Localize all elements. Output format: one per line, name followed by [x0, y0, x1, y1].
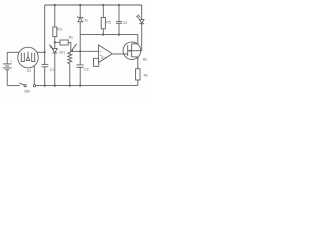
wire top rail	[45, 4, 142, 6]
svg-text:G1: G1	[27, 69, 32, 73]
wire to op-amp inverting input	[72, 50, 99, 52]
rheostat RH1 zigzag	[68, 52, 72, 86]
capacitor C2	[76, 51, 88, 85]
wire microphone right terminal to left vertical	[37, 51, 45, 53]
microphone G1	[18, 47, 39, 73]
battery G	[3, 52, 13, 85]
svg-text:+: +	[100, 50, 102, 54]
svg-text:SW: SW	[24, 90, 30, 94]
node top rail junction at D1	[79, 4, 81, 6]
svg-text:C2: C2	[84, 67, 89, 71]
svg-text:2H1: 2H1	[59, 50, 65, 54]
svg-text:+: +	[10, 60, 12, 64]
resistor R2	[136, 57, 148, 86]
wire battery to microphone left terminal	[7, 51, 19, 53]
wire op-amp lower input U-loop	[94, 58, 99, 66]
wire bottom rail left segment	[7, 85, 20, 87]
node top rail junction at R5	[102, 4, 104, 6]
wire op-amp output to transistor gate	[112, 53, 127, 55]
node top rail junction at R3	[54, 4, 56, 6]
capacitor C1	[42, 64, 55, 72]
capacitor C3	[116, 5, 127, 35]
node bottom rail junction at rheostat branch	[69, 85, 71, 87]
wiper arrow of rheostat	[70, 44, 77, 53]
node mid rail junction at R5	[102, 34, 104, 36]
svg-text:IC1: IC1	[101, 56, 106, 60]
wire mid rail corner down to transistor drain	[137, 35, 139, 44]
svg-text:C1: C1	[50, 68, 55, 72]
node bottom rail junction at diode branch	[54, 85, 56, 87]
svg-text:C3: C3	[123, 21, 127, 25]
node junction at C2 top	[79, 50, 81, 52]
transistor B2 (MOSFET in circle)	[123, 42, 147, 62]
zener diode Z1	[78, 5, 89, 35]
wire bottom rail main segment	[36, 85, 138, 87]
photodiode (label 2H1)	[49, 42, 65, 85]
wire left vertical from top rail to bottom rail	[44, 5, 46, 86]
LED D2	[137, 5, 144, 51]
node top rail junction at C3	[118, 4, 120, 6]
svg-text:R2: R2	[144, 73, 148, 77]
svg-text:Z1: Z1	[84, 18, 88, 22]
node bottom rail junction at C2 branch	[79, 85, 81, 87]
wire microphone bottom to switch contact	[33, 66, 35, 85]
wire zener node down to op-amp input	[79, 35, 81, 52]
node mid rail junction at C3	[118, 34, 120, 36]
svg-text:B2: B2	[143, 57, 147, 61]
resistor R5	[101, 5, 111, 35]
wire mid rail (zener node)	[80, 34, 138, 36]
svg-text:R3: R3	[57, 27, 61, 31]
svg-text:R1: R1	[69, 36, 73, 40]
node junction mic right wire on left vertical	[44, 51, 46, 53]
switch SW	[19, 83, 35, 94]
op-amp IC1	[99, 45, 113, 63]
resistor R3	[53, 5, 62, 42]
node junction left vertical on bottom rail	[44, 85, 46, 87]
svg-text:R5: R5	[106, 21, 110, 25]
node junction R3 bottom / R1 left	[54, 41, 56, 43]
resistor R1	[55, 36, 73, 52]
